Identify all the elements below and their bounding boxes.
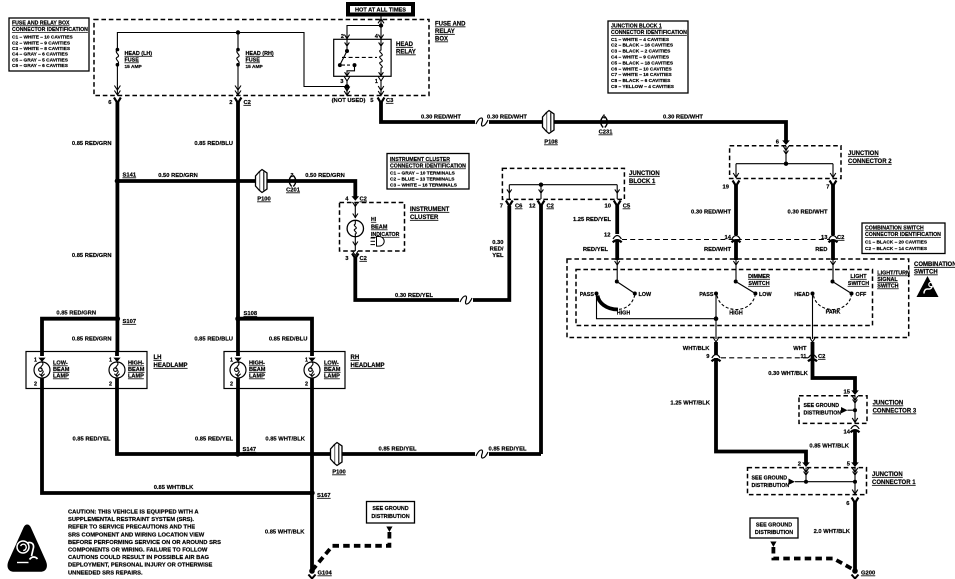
svg-text:2: 2 — [229, 100, 232, 106]
svg-text:RED: RED — [815, 247, 827, 253]
svg-text:C4 – GRAY – 6 CAVITIES: C4 – GRAY – 6 CAVITIES — [12, 52, 69, 58]
svg-text:2: 2 — [341, 34, 344, 40]
svg-text:CONNECTOR IDENTIFICATION: CONNECTOR IDENTIFICATION — [12, 27, 88, 33]
svg-text:S167: S167 — [317, 493, 331, 499]
labels PASS LOW HIGH — [699, 292, 772, 317]
svg-text:0.85 RED/YEL: 0.85 RED/YEL — [72, 437, 110, 443]
fuse HEAD (LH) 15A — [114, 48, 120, 95]
splice S108 — [235, 311, 258, 321]
svg-text:0.85 RED/YEL: 0.85 RED/YEL — [378, 447, 416, 453]
node: feed junction — [379, 23, 383, 27]
JB1 internal bus — [507, 183, 620, 200]
svg-text:14: 14 — [725, 235, 732, 241]
svg-text:LAMP: LAMP — [324, 374, 340, 380]
dashed ground wire to G200 — [773, 547, 855, 571]
combination switch connector pin 14 — [725, 235, 741, 242]
JC1 pin 6 — [846, 498, 858, 508]
LH headlamp box — [26, 352, 147, 389]
svg-text:1: 1 — [34, 358, 37, 364]
svg-text:15 AMP: 15 AMP — [125, 64, 143, 70]
svg-text:C2: C2 — [837, 235, 844, 241]
label HEAD (LH) FUSE 15 AMP — [125, 51, 153, 70]
svg-text:BEAM: BEAM — [53, 367, 70, 373]
JC2 pin 19 — [723, 181, 740, 191]
svg-text:HEAD (LH): HEAD (LH) — [125, 51, 153, 57]
svg-text:LOW-: LOW- — [53, 361, 68, 367]
svg-text:FUSE: FUSE — [246, 58, 261, 64]
svg-text:1: 1 — [230, 358, 233, 364]
svg-text:UNNEEDED SRS REPAIRS.: UNNEEDED SRS REPAIRS. — [68, 570, 143, 576]
splice S141 — [115, 173, 137, 184]
svg-text:19: 19 — [723, 185, 730, 191]
svg-text:S107: S107 — [123, 319, 137, 325]
connector C231 pin 4 — [599, 115, 614, 136]
svg-text:C3 – WHITE – 16 TERMINALS: C3 – WHITE – 16 TERMINALS — [390, 183, 458, 189]
relay pin 2 — [341, 34, 344, 40]
wire 1.25 RED/YEL JB1 pin10 down — [615, 205, 619, 234]
combination switch connector identification table — [862, 223, 945, 254]
svg-text:0.85 RED/YEL: 0.85 RED/YEL — [488, 447, 526, 453]
svg-text:C2: C2 — [547, 204, 554, 210]
JC3 pin 14 — [844, 426, 860, 436]
wires into combination switch — [734, 241, 738, 260]
RH headlamp box — [224, 352, 345, 389]
SRS warning triangle (combination switch) — [917, 276, 939, 297]
svg-text:SWITCH: SWITCH — [848, 281, 869, 287]
label LOW-BEAM LAMP — [53, 361, 70, 380]
svg-text:DIMMER: DIMMER — [748, 274, 770, 280]
svg-text:7: 7 — [826, 185, 829, 191]
labels HEAD OFF PARK — [794, 292, 867, 316]
svg-text:0.85 WHT/BLK: 0.85 WHT/BLK — [265, 530, 305, 536]
svg-text:C231: C231 — [599, 130, 614, 136]
svg-text:HEAD: HEAD — [396, 42, 414, 48]
svg-text:LIGHT/TURN: LIGHT/TURN — [877, 271, 910, 277]
pin 6 (LH fuse output) — [108, 98, 121, 107]
connector C201 pin 3 — [286, 173, 301, 194]
svg-text:0.85 RED/BLU: 0.85 RED/BLU — [194, 141, 233, 147]
svg-text:PASS: PASS — [699, 292, 714, 298]
wire 0.30 RED/WHT JC2-7 down — [831, 185, 835, 235]
label FUSE AND RELAY BOX — [435, 22, 466, 43]
cluster pin 4 C2 — [345, 196, 367, 206]
svg-text:DEPLOYMENT, PERSONAL INJURY OR: DEPLOYMENT, PERSONAL INJURY OR OTHERWISE — [68, 563, 213, 569]
svg-text:LOW-: LOW- — [324, 361, 339, 367]
instrument cluster box (dashed) — [340, 203, 405, 252]
connector C2 pin 9 — [683, 346, 721, 361]
wire S107 to LH high-beam — [116, 319, 120, 352]
svg-text:0.85 RED/BLU: 0.85 RED/BLU — [269, 337, 308, 343]
svg-text:INDICATOR: INDICATOR — [371, 232, 400, 238]
svg-text:1: 1 — [109, 358, 112, 364]
svg-text:JUNCTION: JUNCTION — [848, 151, 879, 157]
LH low-beam lamp — [34, 352, 50, 389]
svg-text:DISTRIBUTION: DISTRIBUTION — [752, 483, 790, 489]
relay mechanical link (dashed) — [342, 56, 377, 58]
svg-text:CONNECTOR IDENTIFICATION: CONNECTOR IDENTIFICATION — [390, 164, 466, 170]
wire break — [476, 120, 488, 125]
hi beam indicator bulb — [347, 203, 363, 252]
svg-text:SUPPLEMENTAL RESTRAINT SYSTEM: SUPPLEMENTAL RESTRAINT SYSTEM (SRS). — [68, 517, 194, 523]
svg-text:10: 10 — [605, 204, 611, 210]
label DIMMER SWITCH — [748, 274, 770, 287]
JC3 internals: SEE GROUND DISTRIBUTION — [804, 396, 858, 423]
svg-text:C201: C201 — [286, 188, 301, 194]
svg-text:2: 2 — [305, 382, 308, 388]
headlamp beam icon — [371, 237, 385, 247]
svg-text:12: 12 — [604, 233, 610, 239]
svg-text:C2 – BLUE – 13 TERMINALS: C2 – BLUE – 13 TERMINALS — [390, 177, 455, 183]
svg-text:CLUSTER: CLUSTER — [410, 215, 439, 221]
svg-text:C6 – WHITE – 10 CAVITIES: C6 – WHITE – 10 CAVITIES — [611, 66, 672, 72]
svg-text:P108: P108 — [544, 140, 558, 146]
ground G200 — [852, 568, 876, 578]
svg-text:C2: C2 — [360, 197, 367, 203]
svg-text:P100: P100 — [257, 197, 271, 203]
svg-text:0.30: 0.30 — [492, 240, 503, 246]
svg-text:14: 14 — [844, 430, 851, 436]
wire 0.85 RED/GRN (LH fuse to S107) — [116, 102, 120, 320]
svg-text:BOX: BOX — [435, 37, 448, 43]
wire break — [476, 452, 488, 457]
svg-text:FUSE: FUSE — [125, 58, 140, 64]
svg-text:HEADLAMP: HEADLAMP — [154, 363, 188, 369]
svg-text:C8 – BLACK – 6 CAVITIES: C8 – BLACK – 6 CAVITIES — [611, 78, 671, 84]
wire 0.85 RED/YEL JB1 pin12 down — [539, 205, 543, 454]
svg-text:C1 – BLACK – 20 CAVITIES: C1 – BLACK – 20 CAVITIES — [865, 240, 928, 246]
svg-text:FUSE AND RELAY BOX: FUSE AND RELAY BOX — [12, 21, 70, 27]
svg-text:C1 – WHITE – 10 CAVITIES: C1 – WHITE – 10 CAVITIES — [12, 35, 73, 41]
JC1 pin 5 — [847, 462, 859, 473]
svg-text:1.25 RED/YEL: 1.25 RED/YEL — [573, 217, 611, 223]
label JUNCTION CONNECTOR 3 — [873, 401, 917, 415]
svg-text:C2: C2 — [360, 256, 367, 262]
svg-text:2: 2 — [34, 382, 37, 388]
wire RED/YEL into switch — [615, 241, 619, 260]
dimmer switch (pivot arm) — [714, 260, 757, 296]
svg-text:11: 11 — [800, 354, 807, 360]
wire 0.85 RED/YEL S147 to JB1 pin 12 — [238, 452, 475, 456]
svg-text:COMBINATION SWITCH: COMBINATION SWITCH — [865, 226, 924, 232]
svg-text:C7 – WHITE – 16 CAVITIES: C7 – WHITE – 16 CAVITIES — [611, 72, 672, 78]
svg-text:RELAY: RELAY — [435, 29, 455, 35]
svg-text:LOW: LOW — [639, 292, 652, 298]
JC2 pin 7 — [826, 181, 836, 191]
relay pin 1 — [375, 77, 384, 96]
svg-text:HEAD: HEAD — [794, 292, 809, 298]
power tag HOT AT ALL TIMES — [346, 2, 415, 17]
wire 0.30 RED/WHT from relay to JC2 — [381, 102, 475, 123]
svg-text:LAMP: LAMP — [249, 374, 265, 380]
svg-text:CONNECTOR 3: CONNECTOR 3 — [873, 409, 917, 415]
svg-text:C1 – WHITE – 4 CAVITIES: C1 – WHITE – 4 CAVITIES — [611, 37, 670, 43]
light switch dashed arc HEAD-PARK-OFF — [814, 296, 852, 310]
wire: feed to relay pin 2 — [344, 26, 381, 40]
wire: HOT feed into box — [378, 17, 384, 26]
svg-text:BEAM: BEAM — [128, 367, 145, 373]
label HI BEAM INDICATOR — [371, 217, 400, 238]
JC1 internals: SEE GROUND DISTRIBUTION — [752, 468, 858, 495]
svg-text:12: 12 — [529, 204, 535, 210]
label HIGH-BEAM LAMP — [128, 361, 145, 380]
splice S107 — [115, 316, 136, 325]
svg-text:0.85 WHT/BLK: 0.85 WHT/BLK — [154, 485, 194, 491]
svg-text:C9 – YELLOW – 4 CAVITIES: C9 – YELLOW – 4 CAVITIES — [611, 84, 675, 90]
JB1 pin 7 C6 — [500, 201, 523, 210]
svg-text:HIGH: HIGH — [617, 311, 631, 317]
pin 5 C3 — [370, 98, 394, 105]
passing switch dashed arc HIGH-LOW — [619, 296, 635, 310]
svg-text:2.0 WHT/BLK: 2.0 WHT/BLK — [814, 529, 851, 535]
wire PASS contact to common node — [597, 294, 717, 319]
svg-text:1: 1 — [305, 358, 308, 364]
dimmer switch dashed arc PASS-HIGH-LOW — [717, 296, 755, 310]
svg-text:SRS COMPONENT AND WIRING LOCAT: SRS COMPONENT AND WIRING LOCATION VIEW — [68, 532, 205, 538]
svg-text:2: 2 — [230, 382, 233, 388]
svg-text:JUNCTION: JUNCTION — [873, 401, 904, 407]
cluster pin 3 C2 — [345, 251, 367, 262]
grommet P100 — [256, 170, 271, 203]
combination switch outer box (dashed) — [567, 259, 909, 338]
svg-text:SWITCH: SWITCH — [914, 270, 938, 276]
combination switch connector pin 12 — [604, 233, 622, 243]
svg-text:LH: LH — [154, 355, 162, 361]
svg-text:HIGH: HIGH — [729, 311, 743, 317]
svg-text:CONNECTOR IDENTIFICATION: CONNECTOR IDENTIFICATION — [611, 30, 687, 36]
wire RH high-beam to S147 — [236, 389, 240, 455]
JC2 pin 6 — [776, 140, 790, 151]
svg-text:0.30 RED/YEL: 0.30 RED/YEL — [395, 293, 433, 299]
see ground distribution box — [750, 518, 798, 538]
svg-text:SWITCH: SWITCH — [877, 284, 898, 290]
svg-text:G104: G104 — [318, 571, 333, 577]
svg-text:15 AMP: 15 AMP — [246, 64, 264, 70]
wire 0.85 RED/BLU (RH fuse to S108) — [236, 102, 240, 320]
svg-text:REFER TO SERVICE PRECAUTIONS A: REFER TO SERVICE PRECAUTIONS AND THE — [68, 525, 195, 531]
svg-text:C1 – GRAY – 10 TERMINALS: C1 – GRAY – 10 TERMINALS — [390, 171, 456, 177]
label JUNCTION CONNECTOR 1 — [872, 472, 916, 486]
svg-text:LIGHT: LIGHT — [850, 274, 867, 280]
label LIGHT/TURN SIGNAL SWITCH — [877, 271, 910, 290]
svg-text:C5: C5 — [623, 204, 631, 210]
relay pin 4 — [375, 34, 379, 40]
wire dimmer PASS contact down — [714, 294, 719, 340]
svg-text:0.85 WHT/BLK: 0.85 WHT/BLK — [265, 437, 305, 443]
wire 0.85 WHT/BLK JC3-14 to JC1-5 — [853, 431, 857, 464]
svg-text:HEAD (RH): HEAD (RH) — [246, 51, 274, 57]
svg-text:0.85 RED/BLU: 0.85 RED/BLU — [194, 337, 233, 343]
instrument cluster connector identification table — [387, 154, 469, 190]
wire branch S107 to LH low-beam — [42, 319, 117, 352]
label 0.30 RED/ YEL (vertical wire) — [490, 240, 504, 259]
svg-text:INSTRUMENT CLUSTER: INSTRUMENT CLUSTER — [390, 157, 450, 163]
label HEAD (RH) FUSE 15 AMP — [246, 51, 274, 70]
svg-text:FUSE AND: FUSE AND — [435, 22, 466, 28]
svg-text:RED/: RED/ — [490, 247, 504, 253]
svg-text:(NOT USED): (NOT USED) — [332, 98, 366, 104]
svg-text:C5 – BLACK – 18 CAVITIES: C5 – BLACK – 18 CAVITIES — [611, 60, 674, 66]
svg-text:0.30 RED/WHT: 0.30 RED/WHT — [691, 210, 731, 216]
light switch (pivot arm) — [811, 260, 854, 296]
svg-text:S141: S141 — [123, 173, 137, 179]
svg-text:7: 7 — [500, 204, 503, 210]
splice S167 — [309, 490, 330, 499]
wire 0.50 RED/GRN (S141 to cluster) — [117, 181, 355, 197]
relay coil — [379, 39, 384, 76]
dashed ground wire to G104 — [312, 532, 389, 571]
svg-text:0.30 WHT/BLK: 0.30 WHT/BLK — [768, 371, 808, 377]
wire 0.85 RED/YEL LH high-beam to JB1-12 run — [117, 389, 237, 455]
svg-text:C6 – GRAY – 6 CAVITIES: C6 – GRAY – 6 CAVITIES — [12, 63, 69, 69]
svg-text:SWITCH: SWITCH — [748, 281, 769, 287]
caution text — [68, 510, 221, 577]
svg-text:DISTRIBUTION: DISTRIBUTION — [755, 530, 793, 536]
svg-text:0.85 WHT/BLK: 0.85 WHT/BLK — [809, 444, 849, 450]
svg-text:INSTRUMENT: INSTRUMENT — [410, 207, 450, 213]
svg-text:JUNCTION BLOCK 1: JUNCTION BLOCK 1 — [611, 24, 662, 30]
svg-text:RED/YEL: RED/YEL — [583, 247, 609, 253]
passing switch thick arc PASS-HIGH — [598, 296, 619, 310]
svg-text:13: 13 — [821, 235, 828, 241]
svg-text:2: 2 — [798, 462, 801, 468]
svg-text:YEL: YEL — [492, 253, 504, 259]
label JUNCTION CONNECTOR 2 — [848, 151, 892, 165]
junction connector 2 (dashed) — [730, 146, 841, 179]
wire 0.30 RED/WHT JC2-19 down — [734, 185, 738, 235]
svg-text:HI: HI — [371, 217, 377, 223]
svg-text:RH: RH — [351, 355, 360, 361]
fuse HEAD (RH) 15A — [235, 48, 241, 95]
svg-text:C3: C3 — [386, 98, 394, 104]
svg-text:COMBINATION: COMBINATION — [914, 262, 955, 268]
label LIGHT SWITCH — [848, 274, 869, 287]
label RH HEADLAMP — [351, 355, 385, 369]
svg-text:WHT/BLK: WHT/BLK — [683, 346, 711, 352]
connector C2 dashed line (9-11) — [721, 357, 808, 359]
head relay — [334, 39, 391, 76]
svg-text:0.50 RED/GRN: 0.50 RED/GRN — [305, 173, 345, 179]
comb switch pin 9 — [713, 338, 719, 343]
svg-text:C2: C2 — [244, 100, 251, 106]
relay contact arm — [338, 39, 357, 76]
svg-text:0.85 RED/GRN: 0.85 RED/GRN — [56, 311, 96, 317]
label INSTRUMENT CLUSTER — [410, 207, 450, 221]
svg-text:0.50 RED/GRN: 0.50 RED/GRN — [158, 173, 198, 179]
see ground distribution box (left) — [367, 502, 415, 524]
svg-text:C3 – BLACK – 2 CAVITIES: C3 – BLACK – 2 CAVITIES — [611, 49, 671, 55]
svg-text:C2 – BLACK – 16 CAVITIES: C2 – BLACK – 16 CAVITIES — [611, 43, 674, 49]
svg-text:BEAM: BEAM — [371, 225, 388, 231]
pin 2 C2 (RH fuse output) — [229, 98, 251, 107]
combination switch connector pin 13 C2 — [821, 235, 844, 242]
svg-text:1.25 WHT/BLK: 1.25 WHT/BLK — [670, 401, 710, 407]
svg-text:LOW: LOW — [759, 292, 772, 298]
svg-text:HEADLAMP: HEADLAMP — [351, 363, 385, 369]
svg-text:CONNECTOR IDENTIFICATION: CONNECTOR IDENTIFICATION — [865, 232, 941, 238]
junction block 1 connector identification table — [608, 21, 688, 93]
svg-text:0.30 RED/WHT: 0.30 RED/WHT — [421, 115, 461, 121]
svg-text:C2 – BLACK – 14 CAVITIES: C2 – BLACK – 14 CAVITIES — [865, 246, 928, 252]
label HIGH-BEAM LAMP — [249, 361, 266, 380]
svg-text:0.85 RED/YEL: 0.85 RED/YEL — [195, 437, 233, 443]
svg-text:HIGH-: HIGH- — [128, 361, 144, 367]
wire 0.85 WHT/BLK LH low-beam to S167 — [42, 389, 312, 494]
svg-text:C4 – WHITE – 9 CAVITIES: C4 – WHITE – 9 CAVITIES — [611, 55, 670, 61]
svg-text:CONNECTOR 2: CONNECTOR 2 — [848, 159, 892, 165]
svg-text:2: 2 — [109, 382, 112, 388]
svg-text:0.85 RED/GRN: 0.85 RED/GRN — [72, 141, 112, 147]
comb switch pin 11 C2 — [810, 338, 816, 343]
svg-text:RED/WHT: RED/WHT — [704, 247, 732, 253]
svg-text:C2 – WHITE – 9 CAVITIES: C2 – WHITE – 9 CAVITIES — [12, 40, 71, 46]
JC2 internal bus — [733, 146, 836, 178]
wire 0.85 WHT/BLK RH low-beam to G104 — [310, 389, 314, 572]
JC1 pin 2 — [798, 462, 810, 473]
svg-text:S108: S108 — [244, 311, 258, 317]
svg-text:COMPONENTS OR WIRING. FAILURE: COMPONENTS OR WIRING. FAILURE TO FOLLOW — [68, 548, 208, 554]
svg-text:PASS: PASS — [580, 292, 595, 298]
relay pin 3 — [340, 77, 350, 87]
svg-text:SEE GROUND: SEE GROUND — [756, 523, 792, 529]
fuse and relay box connector identification table — [9, 18, 89, 71]
arrow below box — [386, 527, 392, 533]
svg-text:BEAM: BEAM — [249, 367, 266, 373]
svg-text:RELAY: RELAY — [396, 50, 416, 56]
grommet P108 — [543, 111, 559, 146]
wire 1.25 WHT/BLK pin 9 to JC1 pin 2 — [716, 342, 806, 463]
arrow below box — [770, 542, 776, 548]
label LH HEADLAMP — [154, 355, 188, 369]
svg-text:0.30 RED/WHT: 0.30 RED/WHT — [663, 115, 703, 121]
wire: feed to relay pin 4 — [378, 26, 383, 40]
wire 2.0 WHT/BLK JC1-6 to G200 — [853, 502, 857, 572]
svg-text:0.30 RED/WHT: 0.30 RED/WHT — [788, 210, 828, 216]
svg-text:PARK: PARK — [826, 310, 841, 316]
svg-text:SEE GROUND: SEE GROUND — [372, 506, 408, 512]
svg-text:BEAM: BEAM — [324, 367, 341, 373]
svg-text:15: 15 — [844, 390, 851, 396]
ground G104 — [308, 568, 332, 578]
svg-text:CONNECTOR 1: CONNECTOR 1 — [872, 480, 916, 486]
wire S108 to RH high-beam — [236, 319, 240, 352]
wire 0.30 RED/YEL (cluster to JB1 pin 7) — [355, 258, 459, 301]
label JUNCTION BLOCK 1 — [629, 171, 660, 185]
RH low-beam lamp — [304, 352, 320, 389]
svg-text:LAMP: LAMP — [53, 374, 69, 380]
SRS airbag warning triangle — [7, 525, 46, 572]
wire light switch HEAD contact down — [812, 294, 814, 340]
svg-text:LAMP: LAMP — [128, 374, 144, 380]
connector C2 pin 11 — [793, 346, 825, 361]
connector C2 dashed line — [622, 239, 830, 241]
svg-text:DISTRIBUTION: DISTRIBUTION — [371, 514, 409, 520]
svg-text:0.85 RED/GRN: 0.85 RED/GRN — [72, 337, 112, 343]
svg-text:0.30 RED/WHT: 0.30 RED/WHT — [487, 115, 527, 121]
svg-text:HIGH-: HIGH- — [249, 361, 265, 367]
node: pin3 / rail junction — [344, 84, 350, 95]
splice S147 — [235, 447, 256, 457]
svg-text:WHT: WHT — [793, 346, 807, 352]
JB1 pin 12 C2 — [529, 201, 554, 210]
JB1 pin 10 C5 — [605, 201, 631, 210]
svg-text:DISTRIBUTION: DISTRIBUTION — [804, 411, 842, 417]
RH high-beam lamp — [230, 352, 246, 389]
passing switch (pivot arm) — [595, 260, 637, 296]
svg-text:JUNCTION: JUNCTION — [872, 472, 903, 478]
svg-text:OFF: OFF — [856, 292, 867, 298]
label LOW-BEAM LAMP — [324, 361, 341, 380]
node: RH fuse tap — [236, 30, 240, 49]
